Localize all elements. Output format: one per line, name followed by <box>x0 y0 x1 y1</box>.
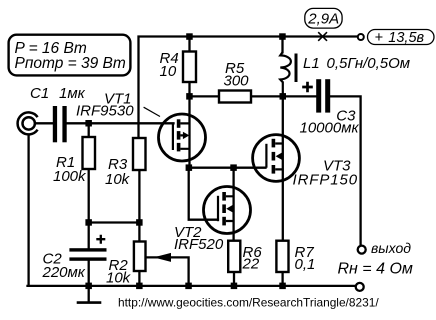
svg-text:13,5в: 13,5в <box>388 30 424 46</box>
svg-text:Rн = 4 Ом: Rн = 4 Ом <box>338 261 413 278</box>
svg-text:Pпотр = 39 Вт: Pпотр = 39 Вт <box>15 55 126 72</box>
svg-text:0,1: 0,1 <box>295 256 316 273</box>
svg-text:10: 10 <box>160 63 177 80</box>
svg-text:выход: выход <box>371 240 411 256</box>
svg-text:220мк: 220мк <box>42 264 86 281</box>
svg-text:http://www.geocities.com/Resea: http://www.geocities.com/ResearchTriangl… <box>118 296 379 310</box>
svg-text:IRFP150: IRFP150 <box>293 171 359 188</box>
svg-text:0,5Гн/0,5Ом: 0,5Гн/0,5Ом <box>327 55 411 72</box>
svg-text:IRF520: IRF520 <box>174 236 224 253</box>
svg-text:L1: L1 <box>303 55 320 72</box>
svg-text:300: 300 <box>224 73 250 90</box>
svg-text:+: + <box>375 30 383 46</box>
svg-text:1мк: 1мк <box>59 85 86 102</box>
svg-text:10k: 10k <box>105 171 131 188</box>
svg-text:100k: 100k <box>53 168 87 185</box>
svg-text:C1: C1 <box>30 85 49 102</box>
svg-text:10k: 10k <box>106 270 132 287</box>
svg-text:2,9А: 2,9А <box>307 10 339 27</box>
svg-text:10000мк: 10000мк <box>300 120 360 137</box>
svg-text:IRF9530: IRF9530 <box>76 103 134 120</box>
svg-text:22: 22 <box>242 256 260 273</box>
